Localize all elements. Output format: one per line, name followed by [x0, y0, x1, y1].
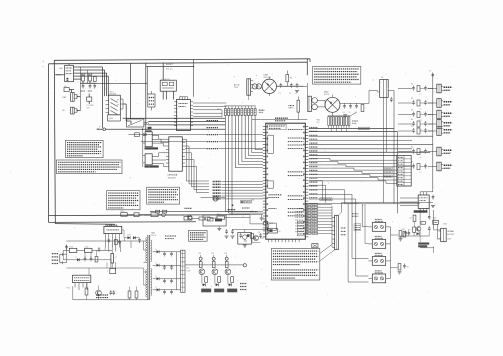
capacitor C610 — [90, 256, 93, 261]
IC U805 if amp — [145, 154, 152, 165]
wire secondary bus — [185, 262, 243, 266]
wire staircase U805 to U803 — [152, 153, 166, 167]
capacitor C802 — [88, 84, 92, 92]
svg-text:D615: D615 — [127, 235, 131, 237]
label U201 pin names right — [309, 128, 317, 198]
wire fan F1-3 — [148, 124, 225, 126]
component pair boxes — [199, 217, 210, 220]
wire primary mesh — [49, 221, 144, 271]
transistor pair blocks column — [369, 219, 391, 282]
IC U803 video driver — [169, 137, 183, 171]
IC U201 TDA9373 main processor — [263, 123, 309, 239]
bus bar BB601 — [181, 250, 185, 292]
ground bridge filter — [295, 91, 299, 93]
svg-text:C1: C1 — [279, 93, 281, 95]
connector CN601 AC — [247, 79, 253, 95]
pin stubs U804-U805 — [143, 135, 145, 163]
capacitor C443 — [428, 226, 431, 231]
pin U801-1 wire — [74, 66, 103, 68]
label U401 part — [414, 210, 428, 212]
label CN402 — [443, 224, 447, 226]
wire long right 3 — [309, 135, 433, 137]
capacitor C642 to gnd — [231, 229, 235, 238]
wire rail x348 — [348, 204, 368, 282]
connector CN301 to CRT board — [332, 215, 338, 249]
label net VCC column — [207, 121, 219, 149]
wire U201 V-out — [309, 132, 398, 214]
svg-text:X8: X8 — [64, 86, 66, 88]
connector P801 keyboard — [71, 93, 77, 102]
resistor R615 — [128, 291, 131, 298]
label U801 — [60, 68, 64, 70]
label connector left of U801 — [56, 75, 61, 77]
capacitor C612 — [349, 104, 352, 109]
box RL401 — [433, 220, 439, 224]
label C611 group — [343, 112, 357, 114]
svg-text:8: 8 — [177, 102, 178, 104]
wire above U201 top — [252, 119, 307, 121]
bridge rectifier D602 — [325, 95, 340, 116]
snubber box — [238, 233, 252, 245]
svg-text:DEGAUSS: DEGAUSS — [162, 78, 171, 81]
wire U802 out 5 — [193, 110, 222, 117]
transistor Q601 — [264, 221, 268, 225]
wire drop e — [130, 63, 132, 119]
resistor R444 — [402, 229, 411, 237]
resistor R803 — [93, 77, 96, 82]
wire long right 1 — [309, 151, 430, 153]
wire long right 5 — [309, 143, 433, 145]
label cluster bus names — [213, 182, 263, 202]
note box 1 — [65, 140, 103, 157]
label P802 — [63, 110, 66, 112]
wire rail x362 — [362, 204, 368, 227]
switch box SW801 — [127, 119, 149, 127]
wire U201 H-out — [309, 128, 394, 130]
label U805 part — [145, 165, 159, 167]
svg-text:1: 1 — [177, 126, 178, 128]
block PC801 lower bay — [108, 115, 121, 121]
svg-text:C3: C3 — [295, 93, 297, 95]
svg-text:Q601: Q601 — [269, 223, 273, 225]
resistor R604 — [95, 257, 98, 263]
pin U201 bottom stubs — [269, 239, 300, 242]
capacitor C613 — [355, 104, 358, 109]
label +B rails — [240, 284, 247, 290]
label AC terminal rows — [52, 254, 59, 264]
wire U201 area to PSU — [249, 215, 251, 224]
label P801 — [63, 97, 68, 99]
cluster R650 C651 — [398, 264, 409, 275]
cluster Q602 area — [251, 232, 262, 243]
scan noise speckle — [55, 64, 451, 298]
svg-text:2: 2 — [177, 122, 178, 124]
wire bundle drop b — [104, 70, 106, 96]
wire fan F1-7 — [185, 148, 263, 150]
wire P801 to bus — [77, 95, 80, 99]
wire rail x352 — [352, 211, 369, 259]
wire to T601 — [304, 83, 308, 96]
wire Z801 tie — [150, 91, 152, 111]
svg-text:BLOCK: BLOCK — [110, 93, 117, 95]
wire long right 6 — [309, 148, 412, 150]
pin U803 left stubs — [166, 139, 169, 166]
wire bundle drop c — [106, 73, 108, 96]
capacitor C660 right — [432, 195, 435, 200]
component X801 box — [64, 86, 69, 92]
svg-text:PC1: PC1 — [67, 288, 71, 290]
svg-text:R5: R5 — [411, 126, 413, 128]
capacitor C801 — [81, 84, 85, 92]
transformer T601 main core — [146, 235, 152, 300]
transistor Q404 — [416, 227, 421, 232]
wire right rail feeds — [428, 89, 433, 132]
wire opto to cluster1 — [391, 234, 399, 236]
capacitor C606 bulk — [111, 250, 117, 268]
label CN301 — [341, 228, 346, 235]
wire U401 mesh — [400, 209, 429, 242]
IC U401 audio amp — [400, 192, 429, 212]
note box 3 — [107, 191, 140, 210]
capacitor C611 — [343, 104, 346, 109]
wire fan F1-2 — [148, 121, 225, 123]
wire staircase bundle U803-U201 — [185, 139, 209, 192]
wire U802 out 2 — [193, 105, 226, 107]
svg-text:RN1: RN1 — [217, 109, 221, 111]
svg-text:R2: R2 — [411, 98, 413, 100]
transformer T602 flyback — [380, 77, 389, 97]
svg-text:C2: C2 — [289, 93, 291, 95]
resistor R802 — [88, 74, 93, 81]
svg-text:C4: C4 — [343, 112, 345, 114]
label boxed row above cluster — [320, 198, 332, 201]
capacitor C604 primary — [65, 245, 68, 250]
IC U601 PWM — [104, 225, 122, 251]
label cluster U201 output nets — [306, 203, 332, 247]
wire secondary vertical — [176, 252, 178, 290]
label boxed on wire y128 — [358, 127, 369, 130]
wire rail x356 — [356, 222, 369, 276]
capacitor on U601 pin2 — [108, 238, 111, 243]
capacitor C601 — [279, 83, 283, 95]
diode D615 pair — [125, 235, 141, 243]
component box above note6 — [312, 244, 318, 248]
svg-text:F601: F601 — [70, 247, 74, 249]
wire U802 out 3 — [193, 109, 222, 111]
label U602 left — [67, 288, 71, 290]
svg-text:C2: C2 — [420, 108, 422, 110]
wire X801 link — [69, 90, 74, 93]
wire fan F1-5 — [129, 134, 263, 136]
label PC801 — [110, 91, 117, 95]
wire opto feed 2 — [365, 204, 369, 244]
wire U802 out 4 — [193, 112, 222, 114]
component box small — [421, 222, 426, 225]
capacitor C442 — [428, 215, 437, 222]
pin PC801 left stubs — [106, 100, 109, 112]
connector column right side — [398, 84, 452, 174]
wire speaker rails — [420, 210, 441, 253]
resistor R442 — [408, 227, 416, 232]
label C444 dark — [418, 243, 429, 248]
cluster R640 C641 — [399, 231, 410, 242]
note box 2 — [57, 160, 123, 174]
svg-text:4: 4 — [177, 115, 178, 117]
IC U802 reset/eeprom — [177, 100, 191, 131]
wire fan group a — [309, 159, 397, 184]
label SW5V — [352, 214, 358, 216]
svg-text:RBV-406: RBV-406 — [264, 77, 271, 79]
capacitor C608 — [113, 290, 116, 295]
ground snubber — [243, 245, 247, 247]
label BB601 — [187, 268, 192, 273]
terminal ring output — [243, 264, 246, 267]
wire rail jog bottom-left — [55, 223, 115, 226]
label 161 right of RN801 — [259, 110, 265, 112]
wire T601-D602 — [317, 100, 325, 107]
regulator output cells — [198, 253, 237, 292]
connector CN402 speaker — [439, 228, 447, 241]
wire top row links — [127, 214, 250, 218]
capacitor C630 top of rail — [429, 71, 434, 78]
resistor R616 — [135, 291, 138, 298]
svg-text:D6: D6 — [278, 231, 280, 233]
resistor R661 — [410, 215, 416, 221]
wire Q601 v — [250, 224, 268, 233]
inductor L604 box — [85, 247, 93, 253]
wire fan F1-4 — [106, 128, 226, 130]
label U804 part — [145, 147, 159, 149]
component dark on wire — [148, 127, 152, 129]
wire bridge out — [277, 71, 304, 87]
crystal X802 box — [87, 97, 92, 101]
speck — [10, 61, 44, 173]
wire AC feeds — [62, 246, 66, 263]
svg-text:L604: L604 — [85, 247, 89, 249]
wire bus C labelled — [146, 59, 194, 97]
wire frame left outer — [48, 64, 50, 223]
node junction on bus C — [193, 66, 195, 68]
IC U602 opto feedback — [73, 275, 91, 290]
filter box Z801 — [148, 94, 155, 107]
svg-text:5: 5 — [177, 112, 178, 114]
sub box relay601 — [203, 215, 226, 228]
transistor Q607 on rail — [187, 215, 192, 220]
snubber box primary — [110, 269, 116, 274]
svg-text:LA76810A: LA76810A — [168, 174, 178, 177]
wire long right 2 — [309, 154, 397, 156]
wire long top bus A — [54, 59, 310, 61]
resistor R801 — [81, 74, 86, 81]
label cluster D612 — [96, 295, 109, 298]
svg-text:F601: F601 — [121, 211, 125, 213]
wire bus A drop right — [306, 59, 308, 75]
wire collector y202 — [342, 202, 434, 204]
resistor R613 — [85, 288, 88, 295]
label nets left of U201 lower — [251, 200, 255, 214]
wire long top bus B (frame top) — [49, 62, 308, 64]
svg-text:3: 3 — [177, 119, 178, 121]
capacitor C803 — [94, 84, 97, 89]
wire PSU top rail — [49, 215, 250, 216]
wire snubber ties — [232, 230, 268, 239]
label RN801 — [217, 109, 221, 111]
svg-text:R1: R1 — [411, 84, 413, 86]
resistor R601 — [286, 75, 292, 82]
pin U802 right stubs — [191, 102, 194, 126]
svg-text:C9: C9 — [429, 71, 431, 73]
transformer T601 driver — [308, 96, 318, 111]
diode D441 — [417, 232, 420, 235]
svg-text:SPEAK: SPEAK — [447, 230, 454, 233]
relay box K801 — [160, 78, 176, 91]
wire bundle drop d — [107, 76, 109, 96]
component box NR601 — [134, 213, 139, 217]
label D602 — [324, 92, 329, 97]
capacitor C603 — [295, 83, 299, 95]
wire U401 top rail — [420, 190, 433, 192]
connector AC bracket — [60, 253, 63, 264]
label net name on bus C — [166, 64, 173, 71]
pin U801-2 wire — [74, 69, 105, 71]
capacitor C641 to gnd — [225, 229, 229, 238]
wire across cluster — [201, 197, 226, 199]
capacitor C609 — [84, 256, 87, 261]
label boxed values — [354, 224, 361, 231]
note box 6 bottom center — [271, 249, 320, 281]
pin U801-5 wire — [74, 78, 82, 80]
svg-text:KEY: KEY — [63, 97, 68, 99]
svg-text:R1: R1 — [290, 78, 292, 80]
ground C660 — [431, 206, 435, 208]
pin U802 left stubs — [174, 102, 178, 128]
box LF603 — [216, 214, 225, 219]
svg-text:SW 1: SW 1 — [110, 91, 114, 93]
svg-text:R4: R4 — [410, 218, 412, 220]
wire column x142.8 — [142, 129, 144, 167]
svg-text:T601: T601 — [151, 233, 155, 235]
svg-text:C5: C5 — [420, 136, 422, 138]
resistor network RN801 row — [224, 106, 263, 215]
wire bundle drop a — [102, 67, 104, 128]
label T601 — [151, 233, 157, 237]
label scatter rail area — [228, 201, 258, 212]
IC U801 microcontroller — [65, 65, 74, 81]
note box 5 top right — [313, 67, 361, 85]
svg-text:R5: R5 — [408, 230, 410, 232]
svg-text:R5: R5 — [407, 267, 409, 269]
svg-text:SCL 2.5: SCL 2.5 — [166, 69, 172, 71]
pin U803 right stubs — [182, 139, 185, 166]
svg-text:6: 6 — [177, 109, 178, 111]
capacitor on U601 pin5 — [118, 240, 121, 245]
wire cluster verticals — [80, 67, 87, 111]
wire PC801 right drop — [123, 99, 131, 124]
label U201 above — [275, 118, 288, 121]
pin U802 top stubs — [180, 97, 188, 100]
fuse F601 — [121, 211, 128, 216]
wire collector y204 — [345, 203, 420, 205]
svg-text:CN4: CN4 — [443, 224, 447, 226]
secondary rectifier rows — [153, 249, 181, 295]
wire P802 up — [77, 109, 80, 112]
wire staircase U804 to U803 — [152, 135, 166, 146]
label pair left — [352, 121, 358, 123]
svg-text:C6: C6 — [115, 257, 117, 259]
transistor Q603 — [96, 290, 102, 296]
capacitor C607 — [110, 290, 113, 295]
diode D603 — [76, 257, 80, 261]
wire mid rail y211 — [150, 208, 252, 213]
wire opto out rail — [390, 227, 392, 279]
ground D602 cluster — [343, 115, 347, 117]
wire D602 out rail — [340, 91, 378, 104]
fuse F601b box — [69, 247, 77, 253]
resistor on U601 pin4 — [115, 240, 118, 245]
terminal ring standoff — [97, 127, 106, 131]
wire long right 4 — [309, 140, 412, 142]
wire bus B drop to relay — [162, 62, 164, 80]
resistor R611 — [361, 105, 364, 112]
svg-text:R444: R444 — [402, 229, 406, 231]
crystal X201 — [289, 97, 300, 120]
label nets right mid — [384, 167, 393, 177]
label speaker out — [447, 230, 454, 241]
label Q601 — [269, 223, 273, 225]
wire frame into U801 — [55, 74, 64, 76]
IC U804 jungle — [145, 132, 152, 147]
label U201 inner lower pin names — [296, 209, 305, 232]
wire U601 top — [110, 224, 112, 226]
svg-text:R3: R3 — [411, 110, 413, 112]
wire bus A end drop — [309, 59, 311, 62]
wire T602 ties — [378, 91, 395, 129]
wire right rail x433 — [432, 73, 434, 190]
photo-coupler block PC801 — [109, 95, 121, 115]
wire fan F1-6 — [141, 141, 263, 143]
label D601 — [264, 75, 271, 80]
wire PSU lower rail — [49, 221, 196, 224]
label U804 ref — [146, 130, 151, 132]
line filter LF602 — [151, 211, 159, 217]
pin PC801 right stubs — [120, 99, 123, 109]
label AC inlet — [234, 84, 240, 90]
label U803 part number — [168, 174, 178, 180]
wire frame left inner — [54, 60, 55, 223]
svg-text:BCK-47: BCK-47 — [151, 235, 157, 237]
line filter LF601 — [252, 84, 261, 89]
capacitor C602 — [289, 83, 293, 95]
wire K801 drops — [163, 91, 173, 99]
resistor R607 on rail — [184, 215, 192, 220]
wire opto to cluster2 — [391, 267, 398, 269]
svg-text:7: 7 — [177, 105, 178, 107]
wire U801 top tie — [68, 64, 70, 66]
pointer line note6 to CN301 — [320, 245, 335, 261]
switch box SW802 — [135, 133, 147, 137]
wire rail A to CN601 — [248, 95, 250, 100]
wire primary lower mesh — [67, 263, 150, 300]
connector CN302 grid block — [397, 156, 411, 187]
svg-text:C6: C6 — [420, 157, 422, 159]
svg-text:472: 472 — [317, 122, 320, 124]
label crystal value — [86, 105, 93, 109]
svg-text:T6: T6 — [381, 77, 383, 79]
svg-text:503: 503 — [86, 107, 89, 109]
wire crystal tie — [88, 94, 90, 105]
wire T602 legs down — [383, 98, 386, 203]
wire rail y83 — [80, 83, 146, 85]
